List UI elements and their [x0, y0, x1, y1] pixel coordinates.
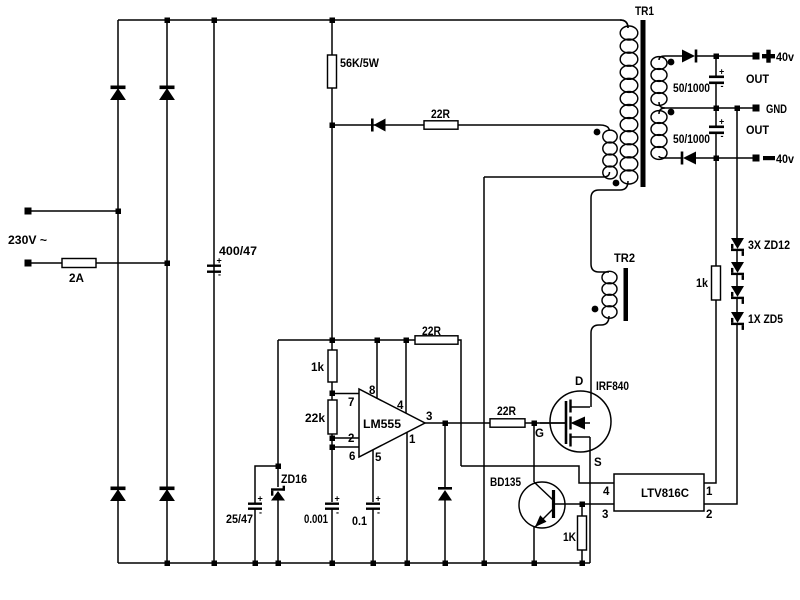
svg-text:4: 4 [397, 400, 404, 412]
svg-text:BD135: BD135 [490, 477, 522, 489]
phase dot: primary bottom [613, 180, 620, 187]
node: AC lower junction [165, 261, 171, 267]
wire: 0.1 cap to ground [372, 509, 374, 563]
wire: zener gap 1 [736, 251, 738, 262]
capacitor 25/47 [248, 494, 263, 518]
node: ZD16 top [276, 464, 282, 470]
svg-text:-: - [259, 508, 262, 518]
wire: zener gap 3 [736, 299, 738, 312]
terminal: AC upper [25, 208, 32, 215]
svg-text:ZD16: ZD16 [281, 474, 307, 486]
wire: TR2 bottom to MOSFET drain [591, 316, 609, 407]
svg-text:22R: 22R [422, 326, 442, 338]
fuse 2A [62, 259, 96, 268]
wire: pin2 stub [332, 437, 359, 439]
wire: MOSFET source down to ground rail end [589, 437, 591, 563]
op-amp style triangle: LM555 [359, 389, 425, 457]
svg-text:S: S [594, 457, 602, 469]
plus symbol [762, 50, 775, 63]
wire: secondary GND upper joint [659, 108, 665, 114]
wire: aux winding bottom lead [484, 172, 610, 177]
resistor 22k [328, 400, 337, 434]
svg-text:TR1: TR1 [635, 4, 654, 18]
wire: 1K to ground [581, 550, 583, 563]
transistor Q: IRF840 MOSFET [540, 391, 611, 452]
wire: BD135 emitter to ground [533, 527, 535, 563]
wire: pin7 stub [332, 393, 359, 395]
wire: cap join2 [715, 133, 717, 158]
resistor 1k right [712, 266, 721, 300]
wire: -40 after diode [696, 157, 756, 159]
diode: bridge top-mid [160, 86, 174, 100]
capacitor 0.001 [325, 494, 340, 518]
wire: pin6 stub [332, 446, 359, 448]
node: top rail col2 [165, 18, 171, 24]
node: 555 output [443, 421, 449, 427]
zener ZD16 [271, 486, 285, 501]
capacitor 50/1000 lower [709, 117, 724, 142]
svg-text:-: - [336, 508, 339, 518]
node: supply rail pin4 [404, 338, 410, 344]
TR1 secondary upper winding [651, 57, 667, 106]
wire: zener gap 2 [736, 275, 738, 286]
resistor 22R top [424, 121, 458, 129]
wire: 25/47 branch [255, 466, 278, 503]
capacitor 0.1 [366, 494, 381, 518]
phase dot: aux top [594, 129, 601, 136]
diode: +40 rectifier [682, 50, 697, 63]
node: ground rail 1K [580, 561, 586, 567]
node: ground rail 25/47 [253, 561, 259, 567]
diode: bridge top-left [111, 86, 125, 100]
svg-text:+: + [335, 494, 340, 504]
svg-text:400/47: 400/47 [219, 246, 257, 258]
terminal: GND [753, 105, 760, 112]
svg-text:50/1000: 50/1000 [673, 134, 710, 146]
wire: aux winding return column x=484 [483, 177, 485, 563]
svg-text:2: 2 [706, 509, 712, 521]
wire: 555 output to gate [425, 422, 490, 424]
svg-text:4: 4 [603, 486, 610, 498]
wire: TR1 primary top lead [620, 20, 628, 28]
svg-text:0.1: 0.1 [352, 516, 368, 528]
diode: output clamp at x=445 [438, 487, 452, 501]
node: GND zener column [735, 106, 741, 112]
svg-text:-: - [218, 270, 221, 280]
svg-text:3: 3 [426, 411, 432, 423]
wire: pin1 vertical to ground [406, 432, 408, 564]
svg-text:-: - [721, 131, 724, 141]
wire: AC input upper [28, 210, 118, 212]
wire: opto pin2 to zener column [704, 324, 737, 504]
node: 56K bottom / aux feed [330, 123, 336, 129]
resistor 22R gate [490, 419, 525, 427]
transformer TR2 core [624, 268, 629, 321]
node: top rail col3 [212, 18, 218, 24]
wire: clamp diode column [444, 423, 446, 487]
svg-text:1k: 1k [311, 362, 325, 374]
bd135 emitter arrow [535, 515, 547, 527]
svg-text:1k: 1k [696, 278, 709, 290]
node: ground rail 0.1 [371, 561, 377, 567]
svg-text:40v: 40v [776, 50, 794, 64]
wire: 1K pull-down upper stub [581, 504, 583, 516]
wire: -40 secondary wire [659, 156, 681, 158]
svg-text:22R: 22R [497, 406, 517, 418]
zener 3X ZD12 #1 [731, 238, 744, 256]
svg-text:230V ~: 230V ~ [8, 233, 47, 247]
wire: bridge column 2 [166, 20, 168, 563]
zener ZD12 #3 [731, 286, 744, 304]
node: supply rail x=332 [330, 338, 336, 344]
svg-text:-: - [721, 81, 724, 91]
wire: bulk cap column [213, 20, 215, 563]
svg-text:40v: 40v [776, 152, 794, 166]
wire: +40 secondary wire [659, 56, 682, 60]
wire: cap join [715, 83, 717, 126]
wire: secondary GND lead [659, 102, 756, 108]
node: BD135 base / 1K [580, 502, 586, 508]
resistor 22R mid (feedback supply) [415, 336, 458, 344]
svg-text:D: D [575, 376, 583, 388]
wire: pin5 vertical to 0.1 cap [372, 450, 374, 503]
transformer TR1 core [641, 20, 646, 187]
svg-text:22R: 22R [431, 109, 451, 121]
wire: pin4 vertical [405, 340, 407, 413]
terminal: AC lower [25, 260, 32, 267]
svg-text:LTV816C: LTV816C [641, 486, 689, 500]
wire: aux charge wire 22R/diode y=125 [332, 125, 610, 131]
svg-text:1: 1 [706, 486, 713, 498]
svg-text:1: 1 [409, 434, 416, 446]
node: ground rail ZD16 [276, 561, 282, 567]
capacitor 400/47 [207, 256, 222, 280]
TR1 secondary lower winding [651, 111, 667, 160]
node: top rail 56K [330, 18, 336, 24]
wire: 0.001 cap to ground rail [331, 509, 333, 563]
wire: +40 after diode [697, 55, 756, 57]
minus symbol [763, 156, 775, 160]
resistor 1K (base pulldown) [578, 516, 587, 550]
node: gate G [532, 421, 538, 427]
terminal: +40v [753, 53, 760, 60]
svg-text:5: 5 [375, 452, 382, 464]
svg-text:2A: 2A [69, 273, 84, 285]
svg-text:OUT: OUT [746, 72, 770, 86]
wire: 22R to opto path vertical x=461 [458, 340, 461, 466]
wire: ZD16 column [277, 340, 279, 487]
wire: clamp diode to ground [444, 500, 446, 563]
phase dot: secondary upper [668, 59, 675, 66]
node: ground rail pin1 [405, 561, 411, 567]
wire: opto pin1 to 1k column [704, 300, 716, 483]
svg-text:+: + [258, 494, 263, 504]
diode: bridge bottom-left [111, 487, 125, 501]
svg-text:1K: 1K [563, 532, 577, 544]
wire: zener column segments [736, 108, 738, 238]
TR1 primary winding [620, 26, 638, 184]
svg-text:6: 6 [349, 451, 355, 463]
resistor 1k (555) [328, 350, 337, 382]
TR2 winding [602, 271, 617, 318]
svg-text:3X ZD12: 3X ZD12 [748, 240, 790, 252]
wire: TR1 primary bottom to TR2 top [591, 181, 628, 272]
wire: bottom ground rail [118, 562, 590, 564]
diode: bridge bottom-mid [160, 487, 174, 501]
svg-text:1X ZD5: 1X ZD5 [748, 314, 784, 326]
svg-text:0.001: 0.001 [304, 514, 329, 526]
TR1 aux winding [603, 130, 617, 179]
svg-text:+: + [719, 117, 724, 127]
wire: AC input lower through fuse [28, 262, 167, 264]
svg-text:25/47: 25/47 [226, 514, 253, 526]
capacitor 50/1000 upper [709, 67, 724, 92]
node: ground rail col3 [212, 561, 218, 567]
wire: 56K / 555 supply column [331, 20, 333, 502]
wire: BD135 collector vertical [533, 423, 535, 482]
wire: left bridge column 1 [117, 20, 119, 563]
wire: 1k top to -40 rail [715, 158, 717, 266]
node: +40 cap [714, 54, 720, 60]
node: ground rail clamp diode [443, 561, 449, 567]
wire: top DC rail [118, 20, 628, 28]
terminal: -40v [753, 155, 760, 162]
svg-text:LM555: LM555 [363, 419, 402, 431]
zener 1X ZD5 [731, 312, 744, 330]
node: -40 cap [714, 156, 720, 162]
svg-text:3: 3 [602, 509, 608, 521]
svg-text:-: - [377, 508, 380, 518]
svg-text:50/1000: 50/1000 [673, 83, 710, 95]
node: pin2 tap [330, 436, 336, 442]
svg-text:TR2: TR2 [614, 251, 635, 265]
wire: ZD16 column lower [277, 500, 279, 563]
node: supply rail pin8 [375, 338, 381, 344]
wire: BD135 base / opto pin3 wire [555, 503, 614, 505]
node: ground rail 0.001 [330, 561, 336, 567]
node: ground rail aux return [482, 561, 488, 567]
svg-text:+: + [376, 494, 381, 504]
svg-text:OUT: OUT [746, 123, 770, 137]
phase dot: TR2 [592, 306, 599, 313]
node: GND cap [714, 106, 720, 112]
svg-text:22k: 22k [305, 413, 326, 425]
svg-text:GND: GND [766, 102, 787, 116]
node: ground rail col2 [165, 561, 171, 567]
diode: aux feed (points left) [371, 119, 386, 132]
node: AC upper junction [116, 209, 122, 215]
svg-text:IRF840: IRF840 [596, 381, 629, 393]
node: ground rail BD135 emitter [532, 561, 538, 567]
mosfet bulk arrow [571, 417, 586, 430]
wire: opto collector feed horizontal y=466 [461, 466, 614, 483]
svg-text:+: + [719, 67, 724, 77]
optocoupler LTV816C box [614, 474, 704, 511]
wire: 25/47 lower [254, 509, 256, 563]
node: 1k/22k tap pin7 [330, 391, 336, 397]
svg-text:8: 8 [369, 385, 376, 397]
svg-text:56K/5W: 56K/5W [340, 58, 379, 70]
transistor BD135 [519, 482, 565, 528]
svg-text:2: 2 [348, 433, 354, 445]
node: pin6 tap [330, 445, 336, 451]
wire: pin8 vertical [376, 340, 378, 399]
wire: output 22R to gate bar [525, 422, 566, 424]
wire: 50/1000 top cap column [715, 56, 717, 76]
svg-text:7: 7 [348, 397, 354, 409]
svg-text:G: G [535, 428, 544, 440]
diode: -40 rectifier [681, 152, 696, 165]
wire: 555 supply rail y=340 [278, 339, 415, 341]
phase dot: secondary lower [668, 109, 675, 116]
zener ZD12 #2 [731, 262, 744, 280]
resistor 56K/5W [328, 55, 337, 88]
